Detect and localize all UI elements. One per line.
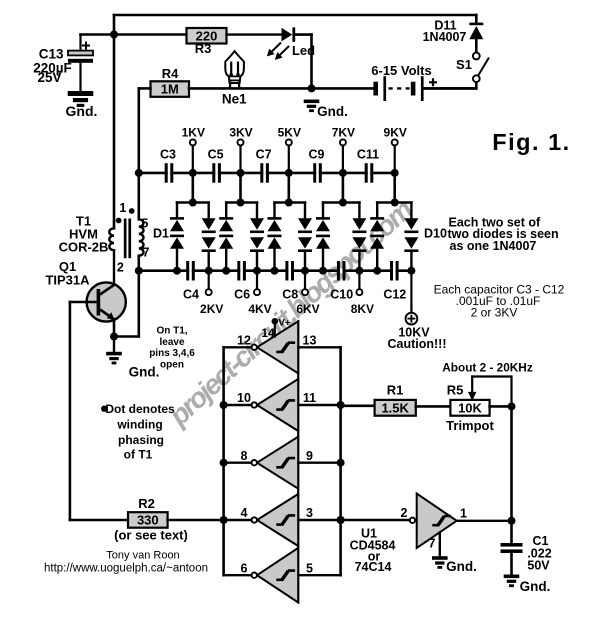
wire ladder bottom rail xyxy=(139,269,412,272)
svg-text:D1: D1 xyxy=(153,227,169,241)
svg-text:open: open xyxy=(160,359,184,370)
neon lamp Ne1 xyxy=(225,51,244,83)
T1 phasing dot primary xyxy=(116,218,122,224)
svg-text:Gnd.: Gnd. xyxy=(129,365,160,380)
node ladder rail left xyxy=(135,169,143,177)
svg-text:5: 5 xyxy=(141,217,148,231)
node pin7 rail junction xyxy=(135,267,143,275)
inverter U1 10-11 xyxy=(257,379,298,431)
wire R1 to R5 xyxy=(416,405,451,408)
wire diode bar 4 xyxy=(323,201,359,204)
svg-text:9: 9 xyxy=(306,449,313,463)
node bottom rail junction xyxy=(373,267,381,275)
svg-text:4KV: 4KV xyxy=(248,302,271,316)
svg-text:1N4007: 1N4007 xyxy=(423,30,467,44)
inverter U1 6-5 xyxy=(257,548,298,603)
svg-text:On T1,: On T1, xyxy=(156,326,187,337)
node input bus xyxy=(220,401,228,409)
capacitor C8 xyxy=(288,269,291,273)
wire output pin 11 xyxy=(298,404,340,406)
trimpot arrow xyxy=(471,377,473,394)
node pin1 C1 junction xyxy=(508,517,516,525)
svg-text:6: 6 xyxy=(241,561,248,575)
node top junction 1KV xyxy=(189,169,197,177)
wire S1 down to battery plus xyxy=(424,83,477,89)
wire input pin 4 xyxy=(224,519,252,521)
terminal 1KV xyxy=(192,146,194,173)
wire secondary vertical R4 to pin5 xyxy=(138,88,141,219)
svg-text:5KV: 5KV xyxy=(278,125,301,139)
node top junction 3KV xyxy=(237,169,245,177)
diode column D7 xyxy=(322,203,324,218)
svg-text:74C14: 74C14 xyxy=(355,560,392,574)
wire R2 to input bus xyxy=(168,519,224,522)
wire diode bar 1 xyxy=(177,201,209,204)
wire Q1 emitter down xyxy=(113,319,116,337)
svg-text:2: 2 xyxy=(401,506,408,520)
svg-text:C13: C13 xyxy=(39,47,64,62)
svg-text:R5: R5 xyxy=(447,383,464,398)
node bar feed 5 xyxy=(391,199,399,207)
node bottom rail D10 xyxy=(407,267,415,275)
switch S1 xyxy=(473,53,480,60)
capacitor C10 xyxy=(340,269,343,273)
svg-text:1: 1 xyxy=(119,201,126,215)
wire trimpot feedback xyxy=(472,377,511,407)
wire bar feed 3 xyxy=(287,173,290,203)
node led ground junction xyxy=(308,84,316,92)
terminal 3KV xyxy=(239,146,241,173)
wire emitter to pin7 line xyxy=(114,335,139,338)
pin 14 V+ stub xyxy=(272,318,279,325)
wire R4 left lead xyxy=(139,87,151,90)
led arrows xyxy=(272,43,290,56)
diode column D9 xyxy=(376,203,378,218)
wire output pin 5 xyxy=(298,574,340,576)
svg-text:Ne1: Ne1 xyxy=(222,92,247,107)
inverter U1 2-1 xyxy=(417,494,457,549)
svg-text:2 or 3KV: 2 or 3KV xyxy=(471,305,518,319)
svg-text:pins 3,4,6: pins 3,4,6 xyxy=(149,348,195,359)
svg-text:2KV: 2KV xyxy=(200,302,223,316)
svg-text:C7: C7 xyxy=(256,148,272,162)
svg-text:R4: R4 xyxy=(162,66,179,81)
ground C13 xyxy=(68,91,94,96)
svg-text:7: 7 xyxy=(143,246,150,260)
terminal 2KV xyxy=(208,271,210,290)
svg-text:6-15 Volts: 6-15 Volts xyxy=(371,63,431,78)
node top junction 7KV xyxy=(339,169,347,177)
transformer T1 secondary winding xyxy=(139,219,144,255)
svg-text:2: 2 xyxy=(117,260,124,274)
diode column D5 xyxy=(273,203,275,218)
wire input pin 6 xyxy=(224,574,252,576)
capacitor C13 xyxy=(68,51,93,56)
wire input pin 10 xyxy=(224,404,252,406)
svg-text:C6: C6 xyxy=(234,288,250,302)
svg-text:1: 1 xyxy=(460,507,467,521)
svg-text:25V: 25V xyxy=(37,70,61,85)
capacitor C7 xyxy=(263,171,266,175)
capacitor C11 xyxy=(368,171,371,175)
inverter U1 12-13 xyxy=(257,321,298,373)
svg-text:R2: R2 xyxy=(138,496,155,511)
svg-text:winding: winding xyxy=(116,418,162,432)
node bottom rail junction xyxy=(301,267,309,275)
diode column D1 xyxy=(176,203,178,218)
svg-text:Gnd.: Gnd. xyxy=(520,579,551,594)
wire secondary pin7 down xyxy=(138,256,141,337)
svg-text:13: 13 xyxy=(303,333,317,347)
resistor R2 xyxy=(128,512,168,528)
terminal 5KV xyxy=(288,146,290,173)
capacitor C12 xyxy=(393,269,396,273)
wire bar feed 2 xyxy=(239,173,242,203)
svg-text:Dot denotes: Dot denotes xyxy=(105,402,175,416)
node R5 feedback xyxy=(508,402,516,410)
svg-text:Gnd.: Gnd. xyxy=(317,104,348,119)
wire diode bar 5 xyxy=(377,201,411,204)
pin 7 ground stub xyxy=(439,533,441,557)
svg-text:7: 7 xyxy=(429,537,436,551)
wire primary to collector xyxy=(100,250,114,294)
svg-text:C12: C12 xyxy=(383,288,406,302)
svg-text:5: 5 xyxy=(306,561,313,575)
wire diode bar 2 xyxy=(226,201,257,204)
node top junction 9KV xyxy=(391,169,399,177)
svg-text:leave: leave xyxy=(159,337,184,348)
wire V+ vertical xyxy=(113,15,116,228)
svg-text:6KV: 6KV xyxy=(296,302,319,316)
svg-text:R1: R1 xyxy=(387,383,404,398)
wire inverter right edge xyxy=(297,321,299,602)
wire R5 to C1 node xyxy=(490,405,512,408)
terminal 10KV output xyxy=(410,271,412,313)
capacitor C5 xyxy=(215,171,218,175)
svg-text:C10: C10 xyxy=(330,288,353,302)
transistor Q1 xyxy=(87,282,126,321)
wire inverter output bus xyxy=(339,347,342,575)
svg-text:Gnd.: Gnd. xyxy=(446,559,477,574)
wire bar feed 4 xyxy=(342,173,345,203)
node pin3 bus xyxy=(337,516,345,524)
ground C1 xyxy=(504,575,520,579)
wire feedback down to pin1 xyxy=(510,406,513,520)
svg-text:9KV: 9KV xyxy=(384,125,407,139)
wire R2 row xyxy=(70,519,128,522)
svg-text:330: 330 xyxy=(137,513,159,528)
svg-text:4: 4 xyxy=(241,506,248,520)
terminal 7KV xyxy=(342,146,344,173)
capacitor C6 xyxy=(240,269,243,273)
svg-text:http://www.uoguelph.ca/~antoon: http://www.uoguelph.ca/~antoon xyxy=(44,563,208,575)
svg-text:Trimpot: Trimpot xyxy=(446,418,494,433)
wire Ne1 legs xyxy=(230,83,239,89)
node emitter junction xyxy=(110,333,118,341)
svg-text:V+: V+ xyxy=(279,318,291,329)
capacitor C1 xyxy=(510,521,513,543)
wire pin1 output xyxy=(457,520,512,522)
svg-text:1.5K: 1.5K xyxy=(381,400,409,415)
trimpot R5 xyxy=(450,400,489,416)
svg-text:3: 3 xyxy=(306,506,313,520)
inverter U1 4-3 xyxy=(257,494,298,546)
svg-text:50V: 50V xyxy=(527,559,550,573)
resistor R4 xyxy=(151,81,190,97)
svg-text:R3: R3 xyxy=(195,41,212,56)
wire output pin 13 xyxy=(298,346,340,348)
node bottom rail junction xyxy=(271,267,279,275)
svg-text:About 2 - 20KHz: About 2 - 20KHz xyxy=(442,361,533,375)
wire pin11 to R1 xyxy=(341,404,375,407)
svg-text:1M: 1M xyxy=(161,82,179,97)
svg-text:S1: S1 xyxy=(456,57,472,72)
node bar feed 3 xyxy=(285,199,293,207)
diode D11 xyxy=(475,15,478,23)
node bottom rail junction xyxy=(173,267,181,275)
wire input pin 12 xyxy=(224,346,252,348)
terminal 8KV xyxy=(358,271,360,290)
resistor R1 xyxy=(375,400,416,416)
svg-text:3KV: 3KV xyxy=(229,125,252,139)
wire inverter input bus xyxy=(222,347,225,575)
node output bus xyxy=(337,459,345,467)
wire input pin 8 xyxy=(224,462,252,464)
node bar feed 2 xyxy=(237,199,245,207)
wire R4 to battery line xyxy=(189,87,373,90)
svg-text:COR-2B: COR-2B xyxy=(59,240,109,255)
svg-text:C5: C5 xyxy=(208,148,224,162)
capacitor C9 xyxy=(316,171,319,175)
svg-text:TIP31A: TIP31A xyxy=(45,273,90,288)
svg-text:of T1: of T1 xyxy=(124,448,153,462)
svg-text:C3: C3 xyxy=(160,148,176,162)
svg-text:phasing: phasing xyxy=(118,433,164,447)
transformer T1 primary winding xyxy=(109,228,114,250)
capacitor C3 xyxy=(168,171,171,175)
wire pin2 input xyxy=(341,519,410,521)
led Led xyxy=(227,33,282,35)
node bar feed 1 xyxy=(189,199,197,207)
svg-text:C9: C9 xyxy=(309,148,325,162)
node bottom rail junction xyxy=(319,267,327,275)
node V+ junction xyxy=(110,31,118,39)
wire battery to S1 xyxy=(424,87,477,90)
node bottom rail junction xyxy=(222,267,230,275)
diode column D4 xyxy=(256,203,258,219)
diode column D8 xyxy=(358,203,360,219)
wire bar feed 5 xyxy=(393,173,396,203)
svg-text:14: 14 xyxy=(261,326,275,340)
wire output pin 9 xyxy=(298,462,340,464)
inverter U1 8-9 xyxy=(257,437,298,489)
ground battery minus xyxy=(304,100,320,104)
svg-text:C11: C11 xyxy=(357,148,379,162)
note Dot denotes xyxy=(101,406,107,412)
transformer T1 core xyxy=(124,219,127,259)
diode column D10 xyxy=(410,203,412,219)
terminal 4KV xyxy=(256,271,258,290)
wire output pin 3 xyxy=(298,519,340,521)
svg-text:Caution!!!: Caution!!! xyxy=(387,337,446,351)
svg-text:Gnd.: Gnd. xyxy=(66,103,98,119)
node output bus xyxy=(337,401,345,409)
wire Q1 base lead xyxy=(70,301,97,304)
svg-text:10K: 10K xyxy=(458,400,482,415)
node top junction 5KV xyxy=(285,169,293,177)
ground U1 pin7 xyxy=(432,556,448,560)
wire bar feed 1 xyxy=(192,173,195,203)
svg-text:Tony van Roon: Tony van Roon xyxy=(106,550,179,562)
diode column D2 xyxy=(207,203,209,219)
T1 phasing dot secondary xyxy=(129,208,135,214)
svg-text:12: 12 xyxy=(237,333,251,347)
wire ladder top rail xyxy=(139,172,395,175)
wire led cathode down xyxy=(310,35,313,89)
diode column D6 xyxy=(304,203,306,219)
svg-text:(or see text): (or see text) xyxy=(114,528,188,543)
svg-text:C4: C4 xyxy=(183,288,199,302)
svg-text:as one 1N4007: as one 1N4007 xyxy=(450,239,537,253)
node bar feed 4 xyxy=(339,199,347,207)
wire C13 branch xyxy=(81,33,187,36)
node input bus xyxy=(220,459,228,467)
wire top rail V+ xyxy=(114,14,476,17)
diode column D3 xyxy=(225,203,227,218)
svg-text:10: 10 xyxy=(237,391,251,405)
svg-text:Fig. 1.: Fig. 1. xyxy=(492,129,570,155)
resistor R3 xyxy=(187,28,227,44)
svg-text:8KV: 8KV xyxy=(351,302,374,316)
terminal 6KV xyxy=(304,271,306,290)
terminal 9KV xyxy=(394,146,396,173)
svg-text:8: 8 xyxy=(241,449,248,463)
svg-text:D10: D10 xyxy=(424,227,447,241)
wire Q1 base to R2 xyxy=(69,302,72,520)
capacitor C4 xyxy=(189,269,192,273)
wire diode bar 3 xyxy=(275,201,306,204)
node bottom rail junction xyxy=(355,267,363,275)
svg-text:11: 11 xyxy=(303,391,316,405)
svg-text:C8: C8 xyxy=(282,288,298,302)
svg-text:7KV: 7KV xyxy=(332,125,355,139)
svg-text:1KV: 1KV xyxy=(182,125,205,139)
node bottom rail junction xyxy=(253,267,261,275)
ground Q1 emitter xyxy=(113,337,115,352)
node input bus xyxy=(220,516,228,524)
node output bus xyxy=(337,516,345,524)
node bottom rail junction xyxy=(205,267,213,275)
